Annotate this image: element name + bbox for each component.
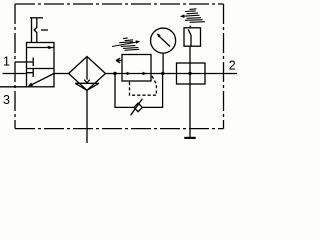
- svg-text:2: 2: [229, 59, 236, 73]
- valve V1 position divider: [27, 68, 55, 70]
- relief valve S1 body: [184, 28, 201, 46]
- valve V1 body: [27, 43, 55, 87]
- relief valve S1 adjustment arrow: [184, 15, 200, 16]
- pressure gauge G1: [151, 28, 176, 53]
- wire valve outlet to filter: [54, 73, 69, 75]
- regulator R1 spring: [123, 37, 128, 40]
- node junction in block: [188, 72, 191, 75]
- node junction at gauge tap: [161, 72, 164, 75]
- enclosure border left: [14, 4, 16, 129]
- enclosure border right: [223, 4, 225, 129]
- node junction at regulator inlet: [113, 72, 116, 75]
- svg-text:1: 1: [3, 55, 10, 69]
- valve V1 manual actuator T-handle: [30, 17, 43, 19]
- filter F1 condensate drain line: [86, 90, 88, 143]
- filter F1 diamond body: [69, 57, 106, 91]
- port 1 line: [3, 73, 27, 75]
- valve V1 detent dash: [41, 29, 48, 31]
- manual drain valve diamond: [134, 103, 142, 112]
- exhaust port bar: [184, 137, 195, 139]
- wire border to valve top blocked port: [15, 61, 27, 63]
- valve V1 open-position flow arrow: [27, 47, 54, 49]
- valve V1 actuator stem with detent notch: [34, 18, 37, 43]
- svg-text:3: 3: [3, 93, 10, 107]
- gauge G1 needle: [159, 36, 170, 46]
- valve V1 blocked port (bottom box): [27, 69, 34, 78]
- distributor block B1: [177, 63, 206, 84]
- relief valve S1 internal path: [188, 29, 191, 46]
- enclosure border bottom: [15, 128, 224, 130]
- enclosure border top: [15, 3, 224, 5]
- valve V1 exhaust path diagonal arrow: [30, 74, 55, 86]
- regulator R1 body: [122, 55, 151, 82]
- filter F1 water separator: [75, 83, 99, 90]
- valve V1 blocked port (top box): [27, 58, 34, 67]
- gauge G1 stem: [162, 53, 164, 73]
- filter F1 condensate indicator line with down arrow: [86, 57, 88, 80]
- port 3 line: [0, 86, 27, 88]
- regulator R1 flow arrows: [127, 72, 131, 75]
- regulator R1 pilot line (dashed): [129, 81, 131, 84]
- regulator R1 adjustment arrow: [112, 42, 137, 46]
- regulator R1 relief vent arrow: [116, 58, 122, 63]
- main flow line: [106, 73, 238, 75]
- relief valve S1 spring: [190, 8, 197, 11]
- relief valve S1 drain line to exhaust: [189, 46, 191, 138]
- regulator R1 relief drain loop: [115, 74, 163, 108]
- relief valve S1 top stub: [189, 26, 191, 28]
